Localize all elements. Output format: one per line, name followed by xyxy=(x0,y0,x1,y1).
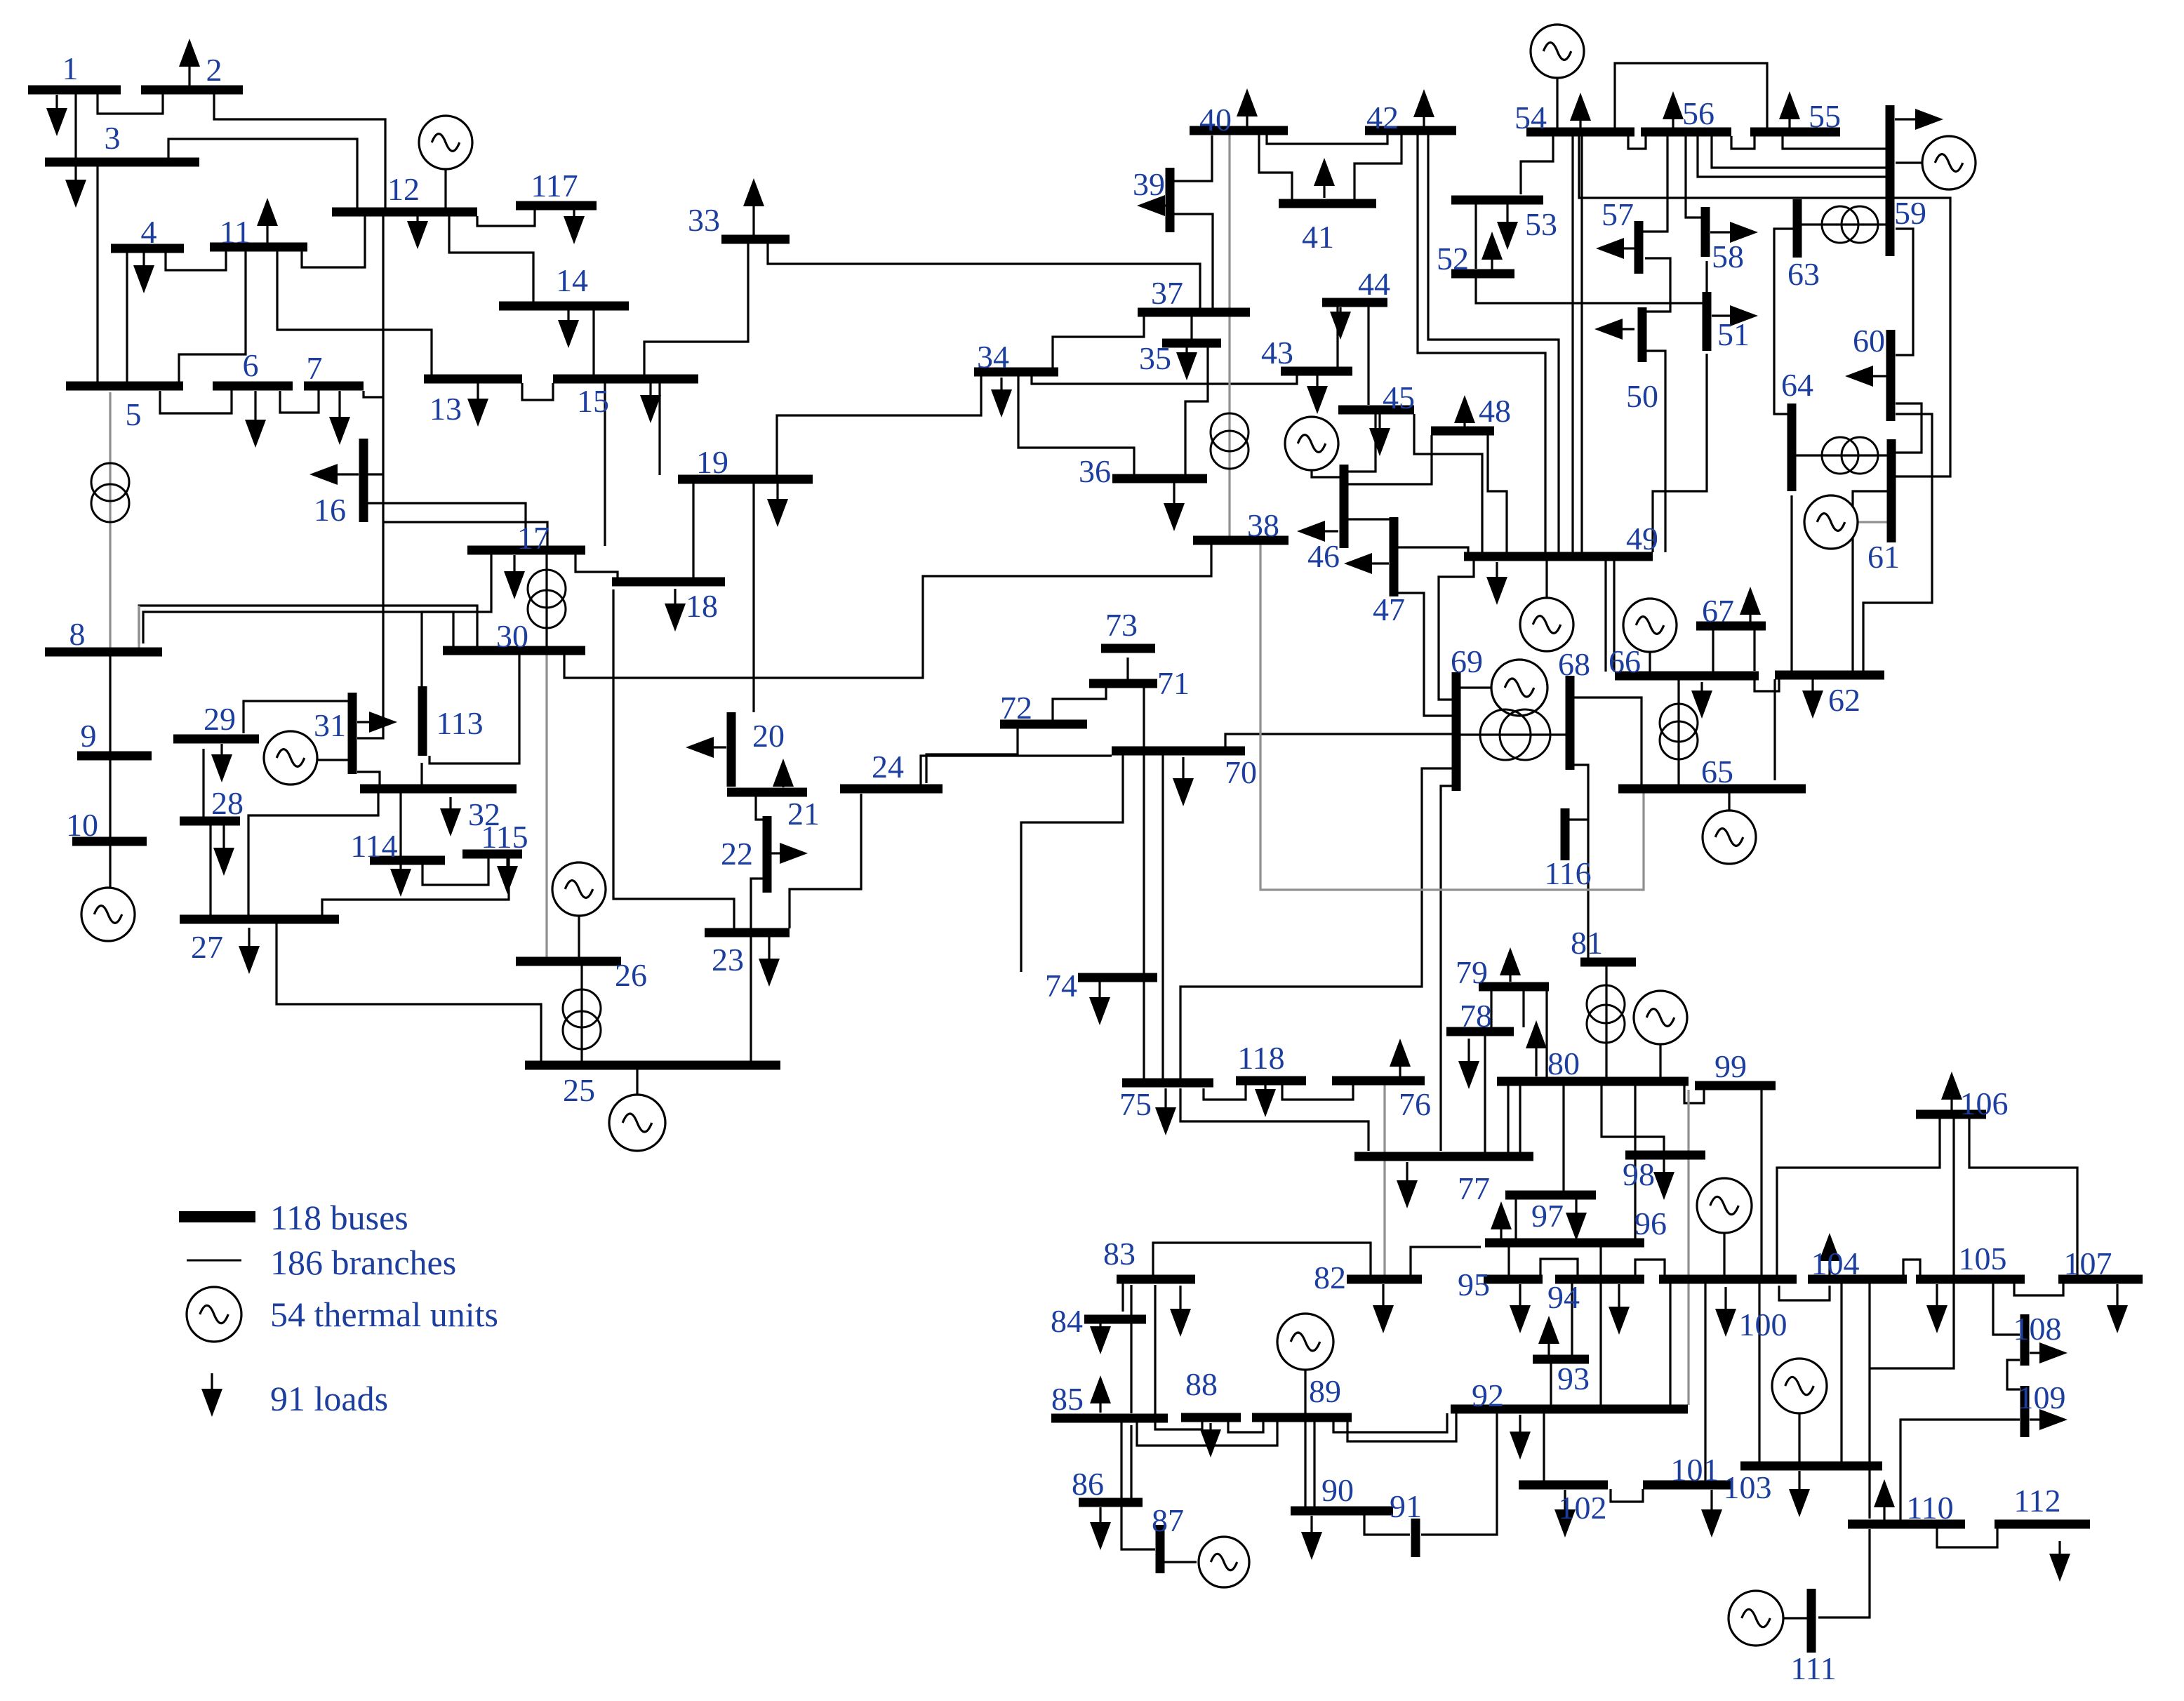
svg-text:105: 105 xyxy=(1959,1241,2007,1276)
svg-text:54 thermal units: 54 thermal units xyxy=(270,1295,498,1334)
bus 34 xyxy=(974,368,1058,377)
legend xyxy=(179,1211,255,1222)
svg-text:112: 112 xyxy=(2013,1483,2060,1519)
bus 28 xyxy=(180,817,240,826)
load arrow xyxy=(1209,1423,1211,1429)
wire xyxy=(1602,1086,1664,1151)
load arrow xyxy=(1672,119,1674,128)
wire xyxy=(368,503,526,546)
load arrow xyxy=(1828,1261,1830,1276)
bus 4 xyxy=(111,244,184,253)
svg-text:71: 71 xyxy=(1157,665,1190,701)
wire xyxy=(1304,1422,1306,1507)
load arrow xyxy=(1463,423,1465,428)
wire xyxy=(1677,680,1679,785)
wire xyxy=(1540,1259,1578,1275)
bus 65 xyxy=(1618,785,1806,794)
svg-text:63: 63 xyxy=(1787,256,1820,292)
wire xyxy=(1053,316,1144,368)
wire xyxy=(1704,1283,1706,1481)
wire xyxy=(1686,136,1701,218)
bus 83 xyxy=(1117,1275,1195,1284)
svg-text:34: 34 xyxy=(977,339,1009,375)
wire xyxy=(1569,818,1588,820)
bus 15 xyxy=(553,375,698,384)
svg-text:1: 1 xyxy=(62,51,79,86)
wire xyxy=(168,139,357,208)
load arrow xyxy=(399,865,401,869)
load arrow xyxy=(338,473,359,475)
wire xyxy=(1143,755,1145,1079)
wire xyxy=(109,760,111,837)
wire xyxy=(1952,1119,1955,1275)
wire xyxy=(1514,1199,1517,1239)
bus 5 xyxy=(66,382,183,391)
bus 17 xyxy=(467,546,585,555)
bus 71 xyxy=(1089,679,1157,688)
load arrow xyxy=(513,555,515,571)
wire xyxy=(1418,135,1545,552)
bus 33 xyxy=(721,235,790,244)
wire xyxy=(1348,518,1394,520)
wire xyxy=(1723,1233,1725,1275)
wire xyxy=(756,796,765,820)
wire xyxy=(1474,204,1477,269)
svg-text:64: 64 xyxy=(1781,367,1813,403)
svg-text:89: 89 xyxy=(1309,1373,1341,1409)
wire xyxy=(160,390,232,413)
load arrow xyxy=(1179,1286,1181,1309)
bus 105 xyxy=(1916,1275,2025,1284)
wire xyxy=(1259,135,1292,199)
wire xyxy=(1853,491,1887,671)
wire xyxy=(1571,1283,1573,1355)
bus 75 xyxy=(1122,1079,1213,1088)
load arrow xyxy=(1509,975,1511,982)
load arrow xyxy=(1506,204,1508,222)
wire xyxy=(1490,991,1492,1027)
svg-text:4: 4 xyxy=(141,214,157,250)
svg-text:6: 6 xyxy=(243,347,259,383)
svg-text:56: 56 xyxy=(1682,95,1714,131)
wire xyxy=(1562,1086,1564,1191)
wire xyxy=(1204,1085,1246,1100)
svg-text:9: 9 xyxy=(81,718,97,754)
load arrow xyxy=(1564,1490,1566,1509)
wire xyxy=(1758,1283,1760,1462)
bus 114 xyxy=(370,856,445,865)
load arrow xyxy=(776,483,778,499)
load arrow xyxy=(1950,1100,1952,1110)
wire xyxy=(1635,1260,1665,1275)
bus 108 xyxy=(2020,1314,2030,1366)
svg-text:21: 21 xyxy=(787,796,820,832)
bus 1 xyxy=(28,86,121,95)
bus 37 xyxy=(1138,308,1250,317)
svg-text:47: 47 xyxy=(1373,592,1405,627)
load arrow xyxy=(1811,679,1813,691)
transformer xyxy=(1211,413,1249,451)
wire xyxy=(139,606,477,646)
wire xyxy=(1153,1243,1371,1275)
bus 104 xyxy=(1808,1275,1907,1284)
svg-text:16: 16 xyxy=(314,492,346,528)
wire xyxy=(1507,1247,1510,1275)
load arrow xyxy=(567,309,569,320)
wire xyxy=(580,966,582,1061)
svg-text:186 branches: 186 branches xyxy=(270,1243,456,1282)
svg-text:108: 108 xyxy=(2013,1311,2062,1347)
wire xyxy=(1126,658,1128,679)
load arrow xyxy=(1749,615,1751,622)
wire xyxy=(109,656,111,752)
wire (gray) xyxy=(109,392,111,648)
bus 19 xyxy=(678,475,813,484)
svg-text:91 loads: 91 loads xyxy=(270,1379,388,1418)
svg-text:29: 29 xyxy=(204,701,236,737)
bus 31 xyxy=(348,693,357,774)
svg-text:92: 92 xyxy=(1472,1378,1504,1413)
wire xyxy=(317,759,352,761)
bus 80 xyxy=(1497,1077,1689,1086)
wire xyxy=(1304,1370,1306,1413)
svg-text:67: 67 xyxy=(1702,593,1734,629)
svg-text:95: 95 xyxy=(1458,1267,1490,1302)
wire xyxy=(1282,1085,1353,1100)
bus 95 xyxy=(1484,1275,1543,1284)
svg-text:73: 73 xyxy=(1105,607,1138,643)
svg-text:88: 88 xyxy=(1185,1366,1218,1402)
wire xyxy=(592,310,594,375)
svg-text:62: 62 xyxy=(1828,682,1860,718)
bus 49 xyxy=(1464,552,1653,561)
generator (thermal unit) xyxy=(1634,991,1687,1044)
svg-text:43: 43 xyxy=(1261,335,1293,371)
svg-text:46: 46 xyxy=(1307,538,1340,574)
wire xyxy=(1519,1086,1521,1152)
wire xyxy=(1460,686,1493,688)
bus 54 xyxy=(1526,128,1634,137)
wire xyxy=(1798,1413,1800,1462)
wire xyxy=(1574,698,1642,785)
wire xyxy=(1646,351,1665,552)
bus 7 xyxy=(304,382,364,391)
svg-text:113: 113 xyxy=(436,705,483,741)
wire xyxy=(1574,765,1588,958)
load arrow xyxy=(1547,1344,1550,1356)
load arrow xyxy=(1378,414,1380,428)
bus 64 xyxy=(1787,403,1797,491)
wire xyxy=(1143,688,1145,747)
wire xyxy=(444,169,446,208)
svg-text:104: 104 xyxy=(1811,1246,1860,1281)
bus 38 xyxy=(1193,536,1289,545)
load arrow xyxy=(1700,682,1703,691)
load arrow xyxy=(1406,1162,1408,1180)
generator (thermal unit) xyxy=(264,731,317,785)
load arrow xyxy=(1873,375,1886,377)
load arrow xyxy=(1575,1199,1577,1213)
bus 44 xyxy=(1322,298,1387,307)
bus 61 xyxy=(1887,439,1896,542)
bus 73 xyxy=(1101,644,1155,653)
svg-text:31: 31 xyxy=(314,707,346,743)
bus 88 xyxy=(1181,1413,1241,1422)
svg-text:61: 61 xyxy=(1867,539,1900,575)
wire xyxy=(1155,1285,1202,1429)
bus 91 xyxy=(1411,1519,1420,1557)
load arrow xyxy=(1936,1284,1938,1305)
load arrow xyxy=(477,383,479,399)
svg-text:66: 66 xyxy=(1609,643,1641,679)
load arrow xyxy=(1165,204,1168,206)
svg-text:109: 109 xyxy=(2018,1380,2066,1415)
bus 78 xyxy=(1446,1027,1514,1036)
svg-text:48: 48 xyxy=(1479,393,1511,429)
bus 116 xyxy=(1561,808,1570,860)
bus 41 xyxy=(1279,199,1376,208)
generator (thermal unit) xyxy=(1199,1537,1249,1587)
svg-text:12: 12 xyxy=(387,171,420,207)
bus 35 xyxy=(1162,339,1221,348)
wire xyxy=(1611,1489,1643,1502)
wire (gray) xyxy=(1260,545,1644,890)
svg-text:5: 5 xyxy=(126,396,142,432)
wire xyxy=(1488,435,1507,552)
load arrow xyxy=(2030,1352,2039,1354)
load arrow xyxy=(2058,1541,2060,1554)
wire xyxy=(644,244,748,383)
bus 2 xyxy=(141,86,243,95)
wire xyxy=(1773,679,1776,780)
svg-text:49: 49 xyxy=(1626,521,1658,556)
svg-text:99: 99 xyxy=(1714,1048,1747,1084)
load arrow xyxy=(1182,757,1184,778)
bus 60 xyxy=(1886,330,1896,421)
wire xyxy=(564,545,1211,678)
bus 77 xyxy=(1354,1152,1533,1161)
wire xyxy=(1643,136,1667,232)
wire xyxy=(96,166,98,384)
wire xyxy=(1790,495,1792,671)
wire xyxy=(1121,1507,1155,1549)
wire xyxy=(1476,278,1704,303)
transformer xyxy=(563,989,601,1027)
load arrow xyxy=(254,391,256,420)
load arrow xyxy=(211,1373,213,1389)
bus 113 xyxy=(418,686,427,756)
svg-text:74: 74 xyxy=(1045,968,1077,1003)
wire xyxy=(1900,1420,2020,1520)
load arrow xyxy=(573,210,575,216)
transformer xyxy=(1480,709,1531,760)
wire (gray) xyxy=(138,606,140,648)
wire xyxy=(477,210,535,226)
svg-text:7: 7 xyxy=(307,350,323,386)
load arrow xyxy=(1623,328,1634,330)
generator (thermal unit) xyxy=(1623,599,1677,652)
wire xyxy=(1439,561,1474,700)
load arrow xyxy=(1624,247,1635,249)
bus 72 xyxy=(1000,720,1087,729)
svg-text:83: 83 xyxy=(1103,1236,1136,1272)
wire xyxy=(752,483,754,712)
svg-text:87: 87 xyxy=(1152,1502,1184,1538)
bus 115 xyxy=(462,850,522,859)
wire xyxy=(613,589,734,928)
wire xyxy=(578,916,580,957)
svg-text:97: 97 xyxy=(1531,1198,1564,1234)
svg-text:54: 54 xyxy=(1514,100,1547,135)
svg-text:57: 57 xyxy=(1602,196,1634,232)
bus 99 xyxy=(1695,1081,1776,1090)
generator (thermal unit) xyxy=(1804,495,1858,549)
wire xyxy=(126,253,128,384)
bus 117 xyxy=(516,201,597,211)
wire xyxy=(280,390,319,413)
svg-text:81: 81 xyxy=(1571,925,1603,961)
svg-text:65: 65 xyxy=(1701,754,1733,789)
wire xyxy=(1354,135,1401,199)
wire xyxy=(750,937,752,1061)
bus 67 xyxy=(1696,622,1766,631)
wire xyxy=(383,522,547,546)
svg-text:82: 82 xyxy=(1314,1260,1346,1295)
wire xyxy=(368,473,383,475)
load arrow xyxy=(2116,1284,2118,1305)
svg-text:58: 58 xyxy=(1712,239,1744,274)
load arrow xyxy=(55,95,58,108)
wire xyxy=(1760,1090,1762,1275)
bus 86 xyxy=(1079,1498,1143,1507)
svg-text:45: 45 xyxy=(1383,380,1415,415)
load arrow xyxy=(1246,116,1248,126)
bus 52 xyxy=(1451,269,1514,279)
svg-text:35: 35 xyxy=(1139,340,1171,376)
load arrow xyxy=(266,226,268,246)
svg-text:72: 72 xyxy=(1000,690,1032,726)
wire xyxy=(1993,1283,2020,1335)
svg-text:41: 41 xyxy=(1302,219,1334,255)
wire xyxy=(1705,261,1707,292)
wire xyxy=(1712,630,1714,672)
bus 70 xyxy=(1112,747,1245,756)
load arrow xyxy=(1316,375,1318,386)
wire xyxy=(1398,593,1452,716)
load arrow xyxy=(1323,186,1325,198)
bus 63 xyxy=(1793,199,1802,258)
wire xyxy=(1796,454,1887,456)
wire xyxy=(74,94,76,158)
wire xyxy=(1783,136,1886,149)
svg-text:40: 40 xyxy=(1199,102,1232,138)
bus 3 xyxy=(45,158,199,167)
load arrow xyxy=(752,206,754,236)
load arrow xyxy=(782,787,784,787)
svg-text:96: 96 xyxy=(1634,1206,1667,1241)
bus 55 xyxy=(1750,128,1840,137)
bus 101 xyxy=(1643,1481,1733,1490)
wire xyxy=(1731,136,1754,149)
wire xyxy=(179,251,246,384)
svg-text:59: 59 xyxy=(1894,195,1926,231)
wire xyxy=(1863,414,1932,671)
wire xyxy=(166,251,226,270)
generator (thermal unit) xyxy=(1697,1178,1752,1233)
bus 84 xyxy=(1084,1315,1146,1324)
svg-text:90: 90 xyxy=(1321,1472,1354,1508)
svg-text:116: 116 xyxy=(1544,855,1591,891)
wire xyxy=(1774,229,1793,414)
wire xyxy=(1053,688,1106,720)
bus 87 xyxy=(1156,1525,1165,1573)
svg-text:51: 51 xyxy=(1717,316,1750,352)
bus 106 xyxy=(1916,1110,1986,1119)
load arrow xyxy=(1798,1471,1800,1489)
load arrow xyxy=(1173,482,1175,503)
wire xyxy=(921,756,1112,785)
wire xyxy=(604,383,606,546)
svg-text:76: 76 xyxy=(1399,1086,1431,1122)
wire xyxy=(422,554,491,686)
wire xyxy=(1645,258,1670,312)
wire xyxy=(1840,1283,1842,1462)
bus 45 xyxy=(1338,406,1414,415)
svg-text:2: 2 xyxy=(206,52,222,88)
generator (thermal unit) xyxy=(1520,598,1573,651)
wire xyxy=(1684,1086,1704,1103)
wire xyxy=(790,794,861,928)
svg-text:42: 42 xyxy=(1366,100,1399,135)
svg-text:60: 60 xyxy=(1853,323,1885,359)
wire xyxy=(1937,1528,1997,1547)
wire xyxy=(143,612,453,646)
load arrow xyxy=(1382,1284,1384,1305)
wire xyxy=(1556,78,1558,128)
wire xyxy=(1779,1286,1830,1300)
svg-text:26: 26 xyxy=(615,957,647,993)
svg-text:85: 85 xyxy=(1051,1381,1084,1417)
transformer xyxy=(1587,985,1625,1023)
wire xyxy=(98,94,163,114)
wire xyxy=(1604,561,1606,672)
wire xyxy=(109,846,111,888)
wire xyxy=(1712,136,1886,168)
svg-text:80: 80 xyxy=(1547,1046,1580,1081)
wire xyxy=(1896,161,1923,164)
load arrow xyxy=(771,852,780,854)
bus 8 xyxy=(45,648,162,657)
wire xyxy=(1571,136,1573,552)
wire xyxy=(322,858,509,915)
svg-text:30: 30 xyxy=(496,618,528,654)
svg-text:8: 8 xyxy=(69,616,86,652)
load arrow xyxy=(1099,1507,1101,1522)
wire xyxy=(1818,1529,1870,1617)
wire xyxy=(1870,1283,1954,1368)
load arrow xyxy=(222,825,225,848)
svg-text:101: 101 xyxy=(1671,1452,1719,1488)
generator (thermal unit) xyxy=(1491,660,1547,716)
bus 12 xyxy=(332,208,477,217)
svg-text:70: 70 xyxy=(1225,754,1257,790)
wire xyxy=(1868,1283,1870,1519)
load arrow xyxy=(1712,314,1730,316)
generator (thermal unit) xyxy=(1922,136,1976,189)
svg-text:28: 28 xyxy=(211,785,244,821)
wire xyxy=(1018,376,1134,474)
svg-text:52: 52 xyxy=(1437,241,1469,276)
